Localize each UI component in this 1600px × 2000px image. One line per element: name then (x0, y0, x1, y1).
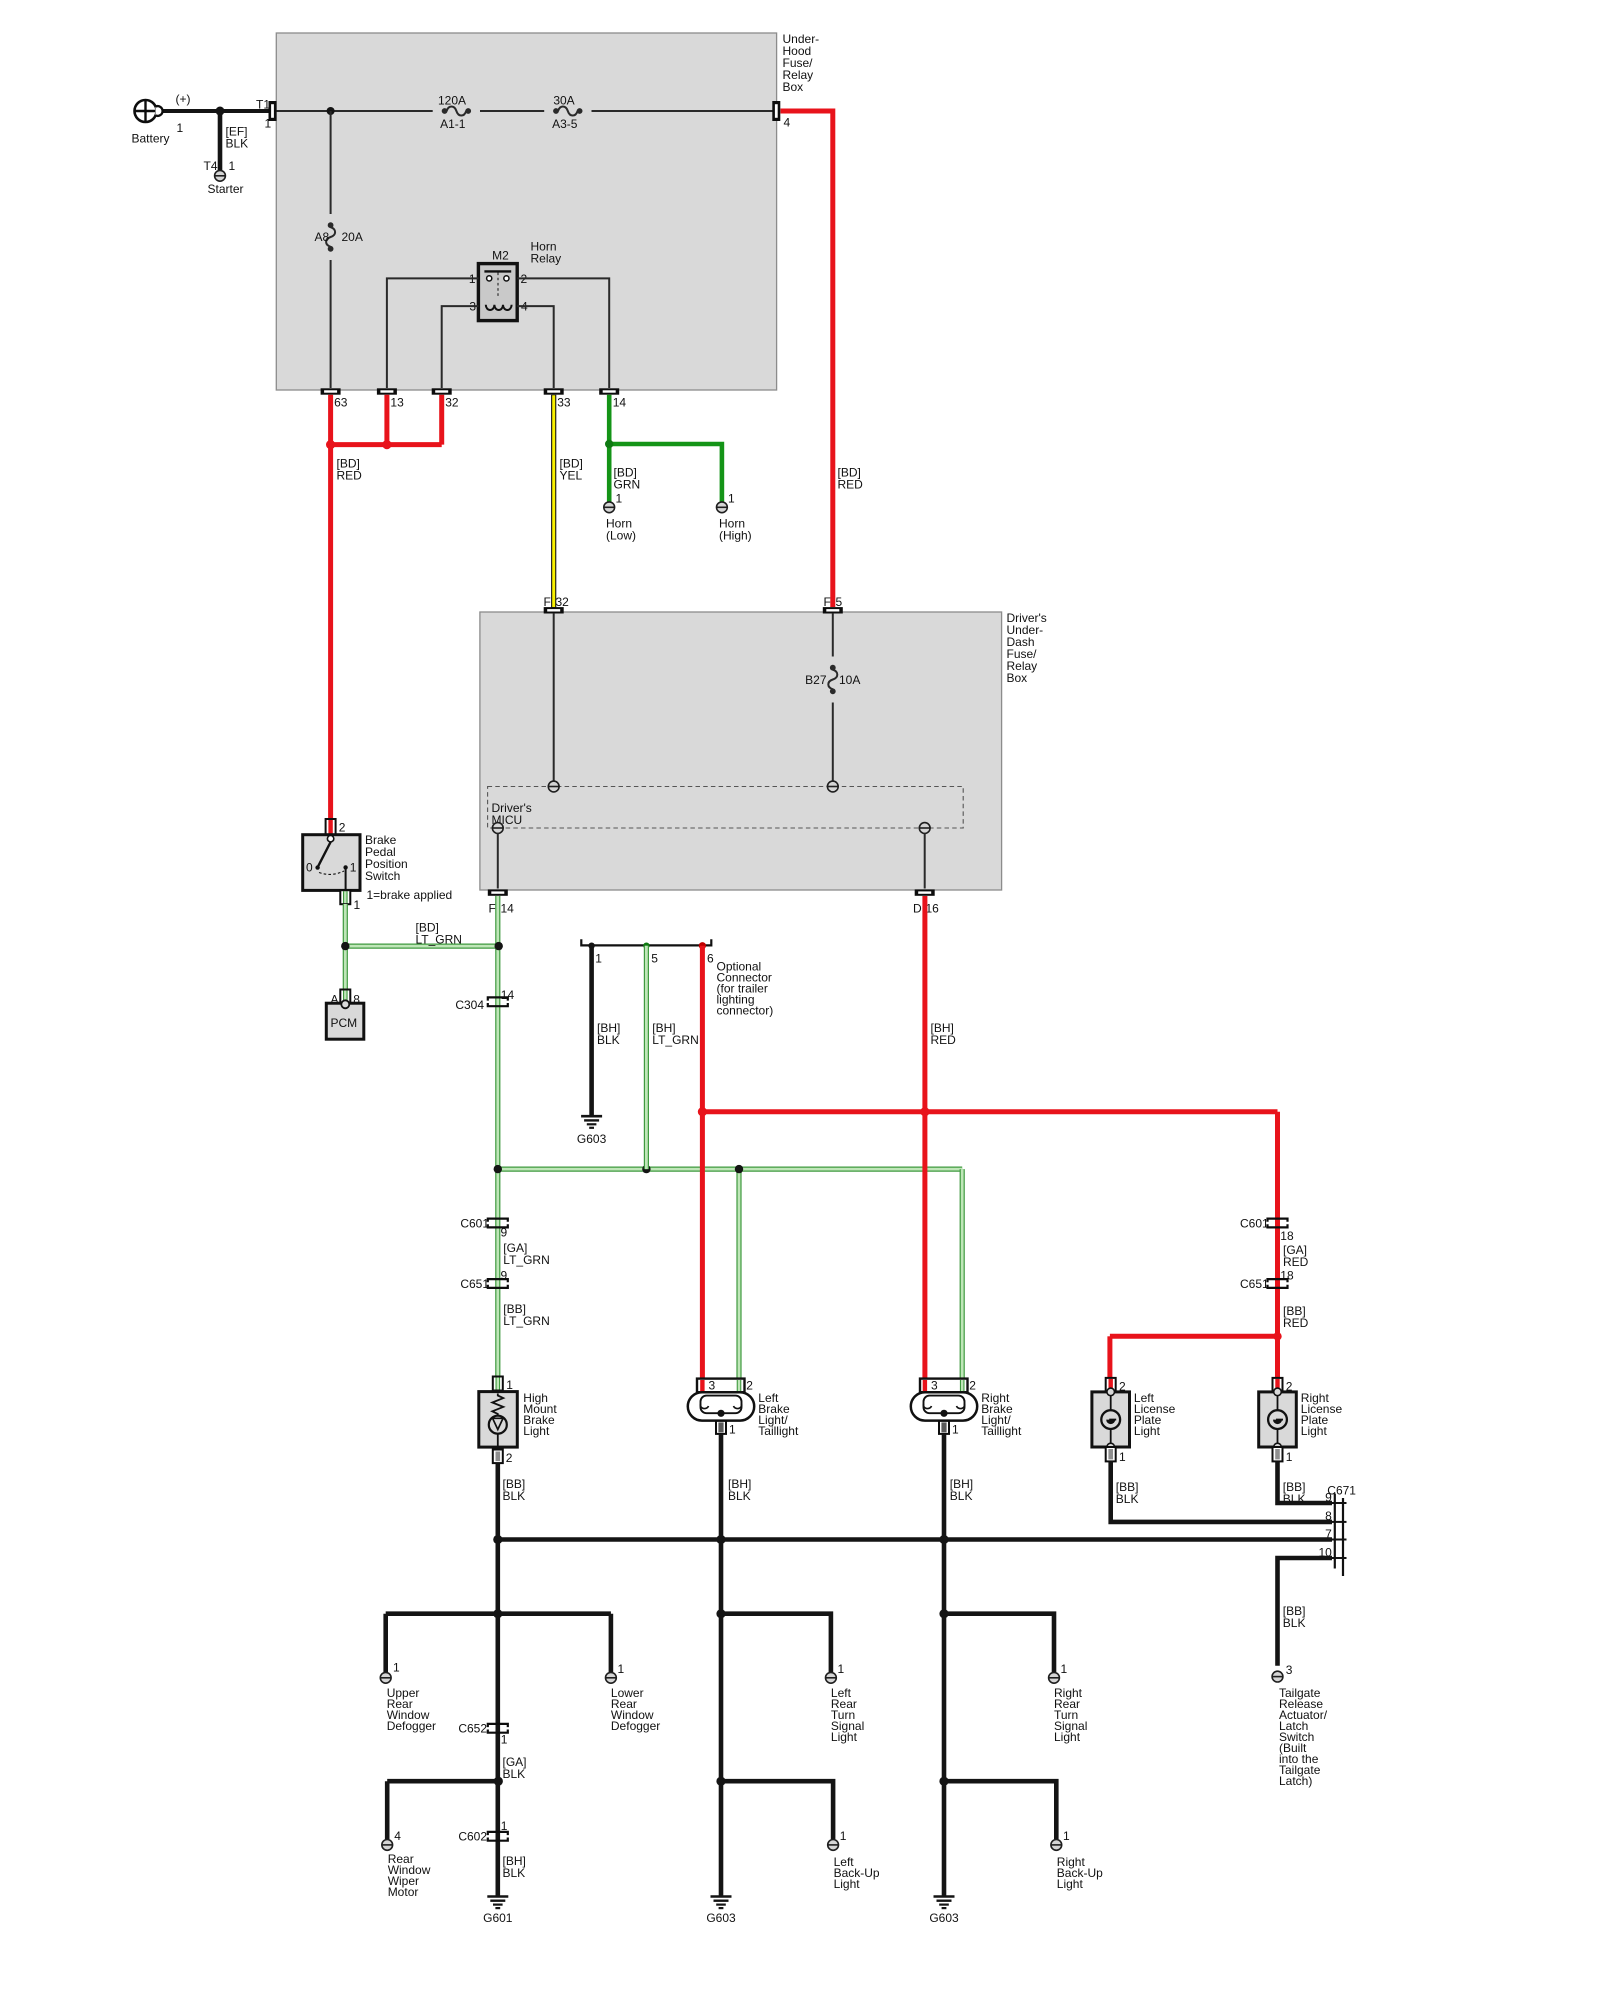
Right license light pin 1 connector (1273, 1447, 1283, 1461)
wire to wiper motor (385, 1781, 390, 1839)
horn high terminal (717, 502, 728, 513)
svg-text:PCM: PCM (331, 1016, 358, 1030)
right brake light / taillight bulb (911, 1392, 977, 1420)
svg-text:4: 4 (784, 116, 791, 130)
junction lt-green right (495, 942, 503, 950)
wire left brake ground down (719, 1434, 724, 1540)
svg-text:13: 13 (390, 396, 404, 410)
svg-text:Light: Light (1057, 1877, 1084, 1891)
svg-text:C651: C651 (1240, 1277, 1269, 1291)
fuse 30A A3-5 (553, 108, 559, 114)
connector pin 33 under-hood box (544, 388, 564, 394)
wire right brake column down (942, 1540, 947, 1896)
svg-text:Light: Light (834, 1877, 861, 1891)
connector C602 (488, 1832, 508, 1835)
svg-text:D: D (913, 902, 922, 916)
wire to starter (thick black) (218, 111, 223, 171)
wire left brake column down (719, 1540, 724, 1896)
wire LT_GRN F14 to C304 (495, 896, 500, 1377)
fuse A8 20A (328, 222, 334, 228)
svg-text:A3-5: A3-5 (552, 117, 578, 131)
wire red junction bar (331, 442, 442, 447)
junction right turn branch (939, 1609, 948, 1618)
svg-text:G603: G603 (929, 1911, 959, 1925)
svg-text:C651: C651 (460, 1277, 489, 1291)
svg-text:LT_GRN: LT_GRN (503, 1314, 549, 1328)
svg-text:14: 14 (613, 396, 627, 410)
wire [BD] RED down to brake pedal switch (328, 445, 333, 820)
brake pedal switch pin 2 connector (326, 819, 336, 835)
driver's MICU dashed block (488, 787, 964, 829)
Right license plate light (1259, 1392, 1297, 1447)
connector pin 63 under-hood box (321, 388, 341, 394)
svg-text:Starter: Starter (208, 182, 244, 196)
wire right brake ground down (942, 1434, 947, 1540)
wire column high mount down (495, 1540, 500, 1896)
optional connector (trailer) (581, 939, 711, 945)
svg-text:3: 3 (709, 1379, 716, 1393)
svg-text:BLK: BLK (1116, 1492, 1139, 1506)
driver's under-dash fuse/relay box (480, 612, 1002, 890)
svg-text:Battery: Battery (132, 132, 170, 146)
svg-text:1: 1 (393, 1661, 400, 1675)
wire red to left license light (1107, 1336, 1112, 1378)
svg-text:C601: C601 (460, 1217, 489, 1231)
svg-text:1: 1 (350, 860, 357, 874)
horn relay M2 (478, 264, 517, 321)
junction main bus to fuse A8 (327, 107, 335, 115)
connector pin 14 under-hood box (599, 388, 619, 394)
right brake light pin 1 connector (939, 1421, 949, 1434)
svg-text:9: 9 (501, 1268, 508, 1282)
wire relay pin1 to pad 13 (387, 278, 479, 388)
right rear turn terminal (1049, 1672, 1060, 1683)
svg-text:BLK: BLK (1283, 1616, 1306, 1630)
connector pin F14 (488, 889, 508, 895)
wire [BD] YEL from pin 33 to F32 (551, 395, 556, 608)
left brake light pin 1 connector (716, 1421, 726, 1434)
wire LT_GRN to left brake light (736, 1169, 741, 1379)
lower defogger terminal (606, 1672, 617, 1683)
svg-text:GRN: GRN (614, 478, 641, 492)
svg-text:32: 32 (445, 396, 459, 410)
junction lt-green left brake (735, 1165, 743, 1173)
MICU pin to F14 (492, 823, 503, 834)
svg-text:Latch): Latch) (1279, 1774, 1312, 1788)
upper defogger terminal (380, 1672, 391, 1683)
high mount stop light (479, 1392, 518, 1448)
svg-text:2: 2 (339, 821, 346, 835)
junction lt-green C304 column (494, 1165, 502, 1173)
svg-text:14: 14 (501, 988, 515, 1002)
Right license light pin 2 connector (1273, 1378, 1283, 1392)
wire right turn branch (944, 1614, 1054, 1673)
wire right backup branch (944, 1781, 1056, 1839)
connector C651 left (488, 1279, 508, 1282)
junction red at 13 (382, 440, 391, 449)
high mount pin 1 connector (493, 1377, 503, 1391)
svg-text:Light: Light (523, 1424, 550, 1438)
Left license plate light (1092, 1392, 1130, 1447)
svg-text:6: 6 (707, 952, 714, 966)
svg-text:T4: T4 (204, 159, 218, 173)
junction wiper branch (494, 1777, 503, 1786)
horn low terminal (604, 502, 615, 513)
wire red license distribution (1110, 1334, 1278, 1339)
svg-text:Light: Light (1134, 1424, 1161, 1438)
svg-text:1: 1 (265, 117, 272, 131)
wire from fuse A8 to pin 63 (330, 260, 332, 388)
wire relay pin2 to pad 14 (517, 278, 609, 388)
wire F5 to fuse B27 (832, 613, 834, 657)
wire to upper defogger (383, 1614, 388, 1673)
svg-text:1: 1 (838, 1662, 845, 1676)
wire to lower defogger (609, 1614, 614, 1673)
svg-text:RED: RED (931, 1033, 957, 1047)
wire red to right license light (1275, 1336, 1280, 1378)
svg-text:0: 0 (306, 860, 313, 874)
starter terminal (215, 170, 226, 181)
svg-text:Relay: Relay (531, 252, 562, 266)
wire high mount ground down (495, 1463, 500, 1539)
wire left backup branch (721, 1781, 833, 1839)
wire F32 to MICU (553, 613, 555, 781)
wire green branch to horn high (609, 444, 722, 502)
svg-text:BLK: BLK (503, 1489, 526, 1503)
svg-text:C652: C652 (458, 1721, 487, 1735)
junction red trailer (698, 1107, 707, 1116)
svg-text:A1-1: A1-1 (440, 117, 466, 131)
wire red from pin 63 (328, 395, 333, 445)
connector C304 (488, 997, 508, 1000)
connector pin F5 (823, 607, 843, 613)
ground G603 left (711, 1895, 732, 1898)
PCM pin A8 connector (340, 990, 350, 1004)
connector C671 (1334, 1494, 1336, 1569)
svg-text:BLK: BLK (728, 1489, 751, 1503)
wire defogger branch (386, 1611, 611, 1616)
connector C651 right (1268, 1279, 1288, 1282)
svg-text:RED: RED (838, 478, 864, 492)
connector C601 right (1268, 1219, 1288, 1222)
svg-text:3: 3 (931, 1379, 938, 1393)
MICU pin from F32 (548, 781, 559, 792)
svg-text:7: 7 (1325, 1527, 1332, 1541)
wire [BD] GRN from pin 14 (607, 395, 612, 502)
wire red from pin 32 (439, 395, 444, 445)
junction red license (1273, 1332, 1281, 1340)
svg-text:14: 14 (501, 902, 515, 916)
svg-text:YEL: YEL (560, 469, 583, 483)
svg-text:1: 1 (354, 898, 361, 912)
right back-up terminal (1051, 1840, 1062, 1851)
connector C652 (488, 1724, 508, 1727)
wire LT_GRN to right brake light (960, 1169, 965, 1379)
left back-up terminal (828, 1840, 839, 1851)
svg-text:1: 1 (177, 121, 184, 135)
wire red from pin 13 (384, 395, 389, 445)
junction red at 63 (326, 440, 335, 449)
wire [BD] RED from pin 4 to F5 (781, 111, 833, 607)
Left license light pin 1 connector (1106, 1447, 1116, 1461)
svg-text:Light: Light (1301, 1424, 1328, 1438)
svg-text:2: 2 (746, 1379, 753, 1393)
svg-text:1: 1 (952, 1422, 959, 1436)
svg-text:1: 1 (501, 1819, 508, 1833)
svg-text:BLK: BLK (503, 1767, 526, 1781)
svg-text:8: 8 (1325, 1509, 1332, 1523)
wire LT_GRN to PCM (343, 946, 348, 989)
battery B1 (135, 100, 157, 122)
wire [BD] LT_GRN switch to junction (343, 904, 348, 946)
svg-text:1: 1 (1063, 1829, 1070, 1843)
svg-text:(+): (+) (176, 92, 191, 106)
right brake light connector pins 3 2 (920, 1379, 968, 1393)
junction bus high mount (493, 1535, 502, 1544)
svg-text:(High): (High) (719, 529, 752, 543)
svg-text:Motor: Motor (388, 1885, 419, 1899)
svg-text:RED: RED (337, 469, 363, 483)
tailgate switch terminal (1272, 1671, 1283, 1682)
connector pin D16 (915, 889, 935, 895)
Left license light pin 2 connector (1106, 1378, 1116, 1392)
svg-text:BLK: BLK (950, 1489, 973, 1503)
wire relay pin3 to pad 32 (442, 306, 479, 388)
wire [BH] BLK trailer pin1 to G603 (589, 946, 594, 1115)
MICU pin from B27 (827, 781, 838, 792)
junction bus left brake (716, 1535, 725, 1544)
ground G601 (487, 1895, 508, 1898)
svg-text:5: 5 (651, 952, 658, 966)
svg-text:33: 33 (557, 396, 571, 410)
svg-text:C304: C304 (455, 998, 484, 1012)
left brake light connector pins 3 2 (697, 1379, 745, 1393)
junction lt-green left (341, 942, 349, 950)
wire wiper branch (387, 1779, 498, 1784)
wire [BH] RED D16 down (922, 896, 927, 1379)
high mount pin 2 connector (493, 1450, 503, 1464)
svg-text:C602: C602 (458, 1829, 487, 1843)
fuse 120A A1-1 (442, 108, 448, 114)
svg-text:T1: T1 (256, 98, 270, 112)
svg-text:B27: B27 (805, 673, 827, 687)
wire C671 pin 10 to tailgate switch (1278, 1558, 1333, 1666)
svg-text:A8: A8 (315, 230, 330, 244)
left rear turn terminal (826, 1672, 837, 1683)
junction left turn branch (716, 1609, 725, 1618)
svg-text:1: 1 (1119, 1450, 1126, 1464)
svg-text:F: F (489, 902, 496, 916)
svg-text:Defogger: Defogger (611, 1719, 660, 1733)
svg-text:Box: Box (1007, 671, 1028, 685)
MICU pin to D16 (919, 823, 930, 834)
svg-text:1: 1 (501, 1732, 508, 1746)
wire left turn branch (721, 1614, 831, 1673)
svg-text:F: F (544, 595, 551, 609)
svg-text:10A: 10A (839, 673, 860, 687)
junction right backup branch (939, 1777, 948, 1786)
svg-text:BLK: BLK (503, 1866, 526, 1880)
svg-text:4: 4 (394, 1829, 401, 1843)
connector T1 (269, 101, 277, 121)
brake pedal position switch (303, 835, 360, 891)
svg-text:1: 1 (229, 159, 236, 173)
svg-text:32: 32 (556, 595, 570, 609)
svg-text:Light: Light (831, 1730, 858, 1744)
wire right license to C671 pin 9 (1278, 1461, 1333, 1503)
wiper motor terminal (382, 1840, 393, 1851)
svg-text:9: 9 (1325, 1490, 1332, 1504)
under-hood fuse/relay box (276, 33, 776, 390)
junction green (605, 440, 613, 448)
svg-text:2: 2 (969, 1379, 976, 1393)
wire relay pin4 to pad 33 (517, 306, 554, 388)
junction lt-green trailer column (642, 1165, 650, 1173)
svg-text:1: 1 (728, 492, 735, 506)
connector pin 13 under-hood box (377, 388, 397, 394)
svg-text:63: 63 (334, 396, 348, 410)
svg-text:Switch: Switch (365, 869, 400, 883)
svg-text:16: 16 (926, 902, 940, 916)
wire main ground bus to C671 pin 7 (498, 1537, 1332, 1542)
wire red trailer pin6 down (700, 946, 705, 1379)
svg-text:120A: 120A (438, 93, 466, 107)
svg-text:1: 1 (1061, 1662, 1068, 1676)
svg-text:connector): connector) (717, 1004, 774, 1018)
connector pin 32 under-hood box (432, 388, 452, 394)
wire red horizontal distribution (702, 1109, 1277, 1114)
svg-text:1: 1 (506, 1378, 513, 1392)
wire [BD] LT_GRN horizontal (345, 943, 498, 948)
svg-text:18: 18 (1280, 1229, 1294, 1243)
fuse B27 10A (830, 665, 836, 671)
svg-text:1: 1 (618, 1662, 625, 1676)
junction left backup branch (716, 1777, 725, 1786)
junction battery/starter tee (216, 107, 225, 116)
svg-text:3: 3 (1286, 1663, 1293, 1677)
svg-text:1: 1 (729, 1422, 736, 1436)
svg-text:1: 1 (595, 952, 602, 966)
svg-text:20A: 20A (342, 230, 363, 244)
svg-text:G603: G603 (706, 1911, 736, 1925)
junction defogger branch (493, 1609, 502, 1618)
left brake light / taillight bulb (688, 1392, 754, 1420)
wire LT_GRN main horizontal (498, 1166, 962, 1171)
ground G603 right (934, 1895, 955, 1898)
svg-text:LT_GRN: LT_GRN (652, 1033, 698, 1047)
ground G603 trailer (581, 1115, 602, 1118)
wire MICU to D16 (924, 833, 926, 888)
svg-text:30A: 30A (553, 93, 574, 107)
svg-text:M2: M2 (492, 249, 509, 263)
svg-text:1: 1 (616, 492, 623, 506)
svg-text:Taillight: Taillight (981, 1424, 1022, 1438)
svg-text:1: 1 (1286, 1450, 1293, 1464)
svg-text:RED: RED (1283, 1316, 1309, 1330)
svg-text:F: F (824, 595, 831, 609)
svg-text:10: 10 (1318, 1545, 1332, 1559)
svg-text:G601: G601 (483, 1911, 513, 1925)
svg-text:1=brake applied: 1=brake applied (367, 888, 453, 902)
svg-text:Defogger: Defogger (387, 1719, 436, 1733)
wire [BH] LT_GRN trailer pin5 (644, 946, 649, 1169)
svg-text:2: 2 (506, 1451, 513, 1465)
svg-text:LT_GRN: LT_GRN (416, 933, 462, 947)
brake pedal switch pin 1 connector (340, 890, 350, 904)
wire main bus inside under-hood box (277, 110, 433, 112)
svg-text:RED: RED (1283, 1255, 1309, 1269)
svg-text:9: 9 (501, 1225, 508, 1239)
svg-text:1: 1 (840, 1829, 847, 1843)
wire battery positive feed (thick black) (152, 109, 272, 113)
wire MICU to F14 (497, 833, 499, 888)
svg-text:Taillight: Taillight (758, 1424, 799, 1438)
svg-text:(Low): (Low) (606, 529, 636, 543)
svg-text:Box: Box (783, 80, 804, 94)
connector pin 4 under-hood box right (772, 101, 780, 121)
connector C601 left (488, 1219, 508, 1222)
PCM (326, 1003, 364, 1039)
svg-text:Light: Light (1054, 1730, 1081, 1744)
svg-text:BLK: BLK (597, 1033, 620, 1047)
junction bus right brake (939, 1535, 948, 1544)
svg-text:5: 5 (836, 595, 843, 609)
svg-text:G603: G603 (577, 1132, 607, 1146)
wire left license to C671 pin 8 (1111, 1461, 1332, 1522)
connector pin F32 (544, 607, 564, 613)
svg-text:C601: C601 (1240, 1217, 1269, 1231)
svg-text:LT_GRN: LT_GRN (503, 1253, 549, 1267)
wire from bus down to fuse A8 (330, 111, 332, 214)
svg-text:BLK: BLK (226, 137, 249, 151)
wire [GA] RED to C601 right (1275, 1112, 1280, 1337)
wire fuse B27 to MICU (832, 703, 834, 782)
junction red D16 column (920, 1107, 929, 1116)
